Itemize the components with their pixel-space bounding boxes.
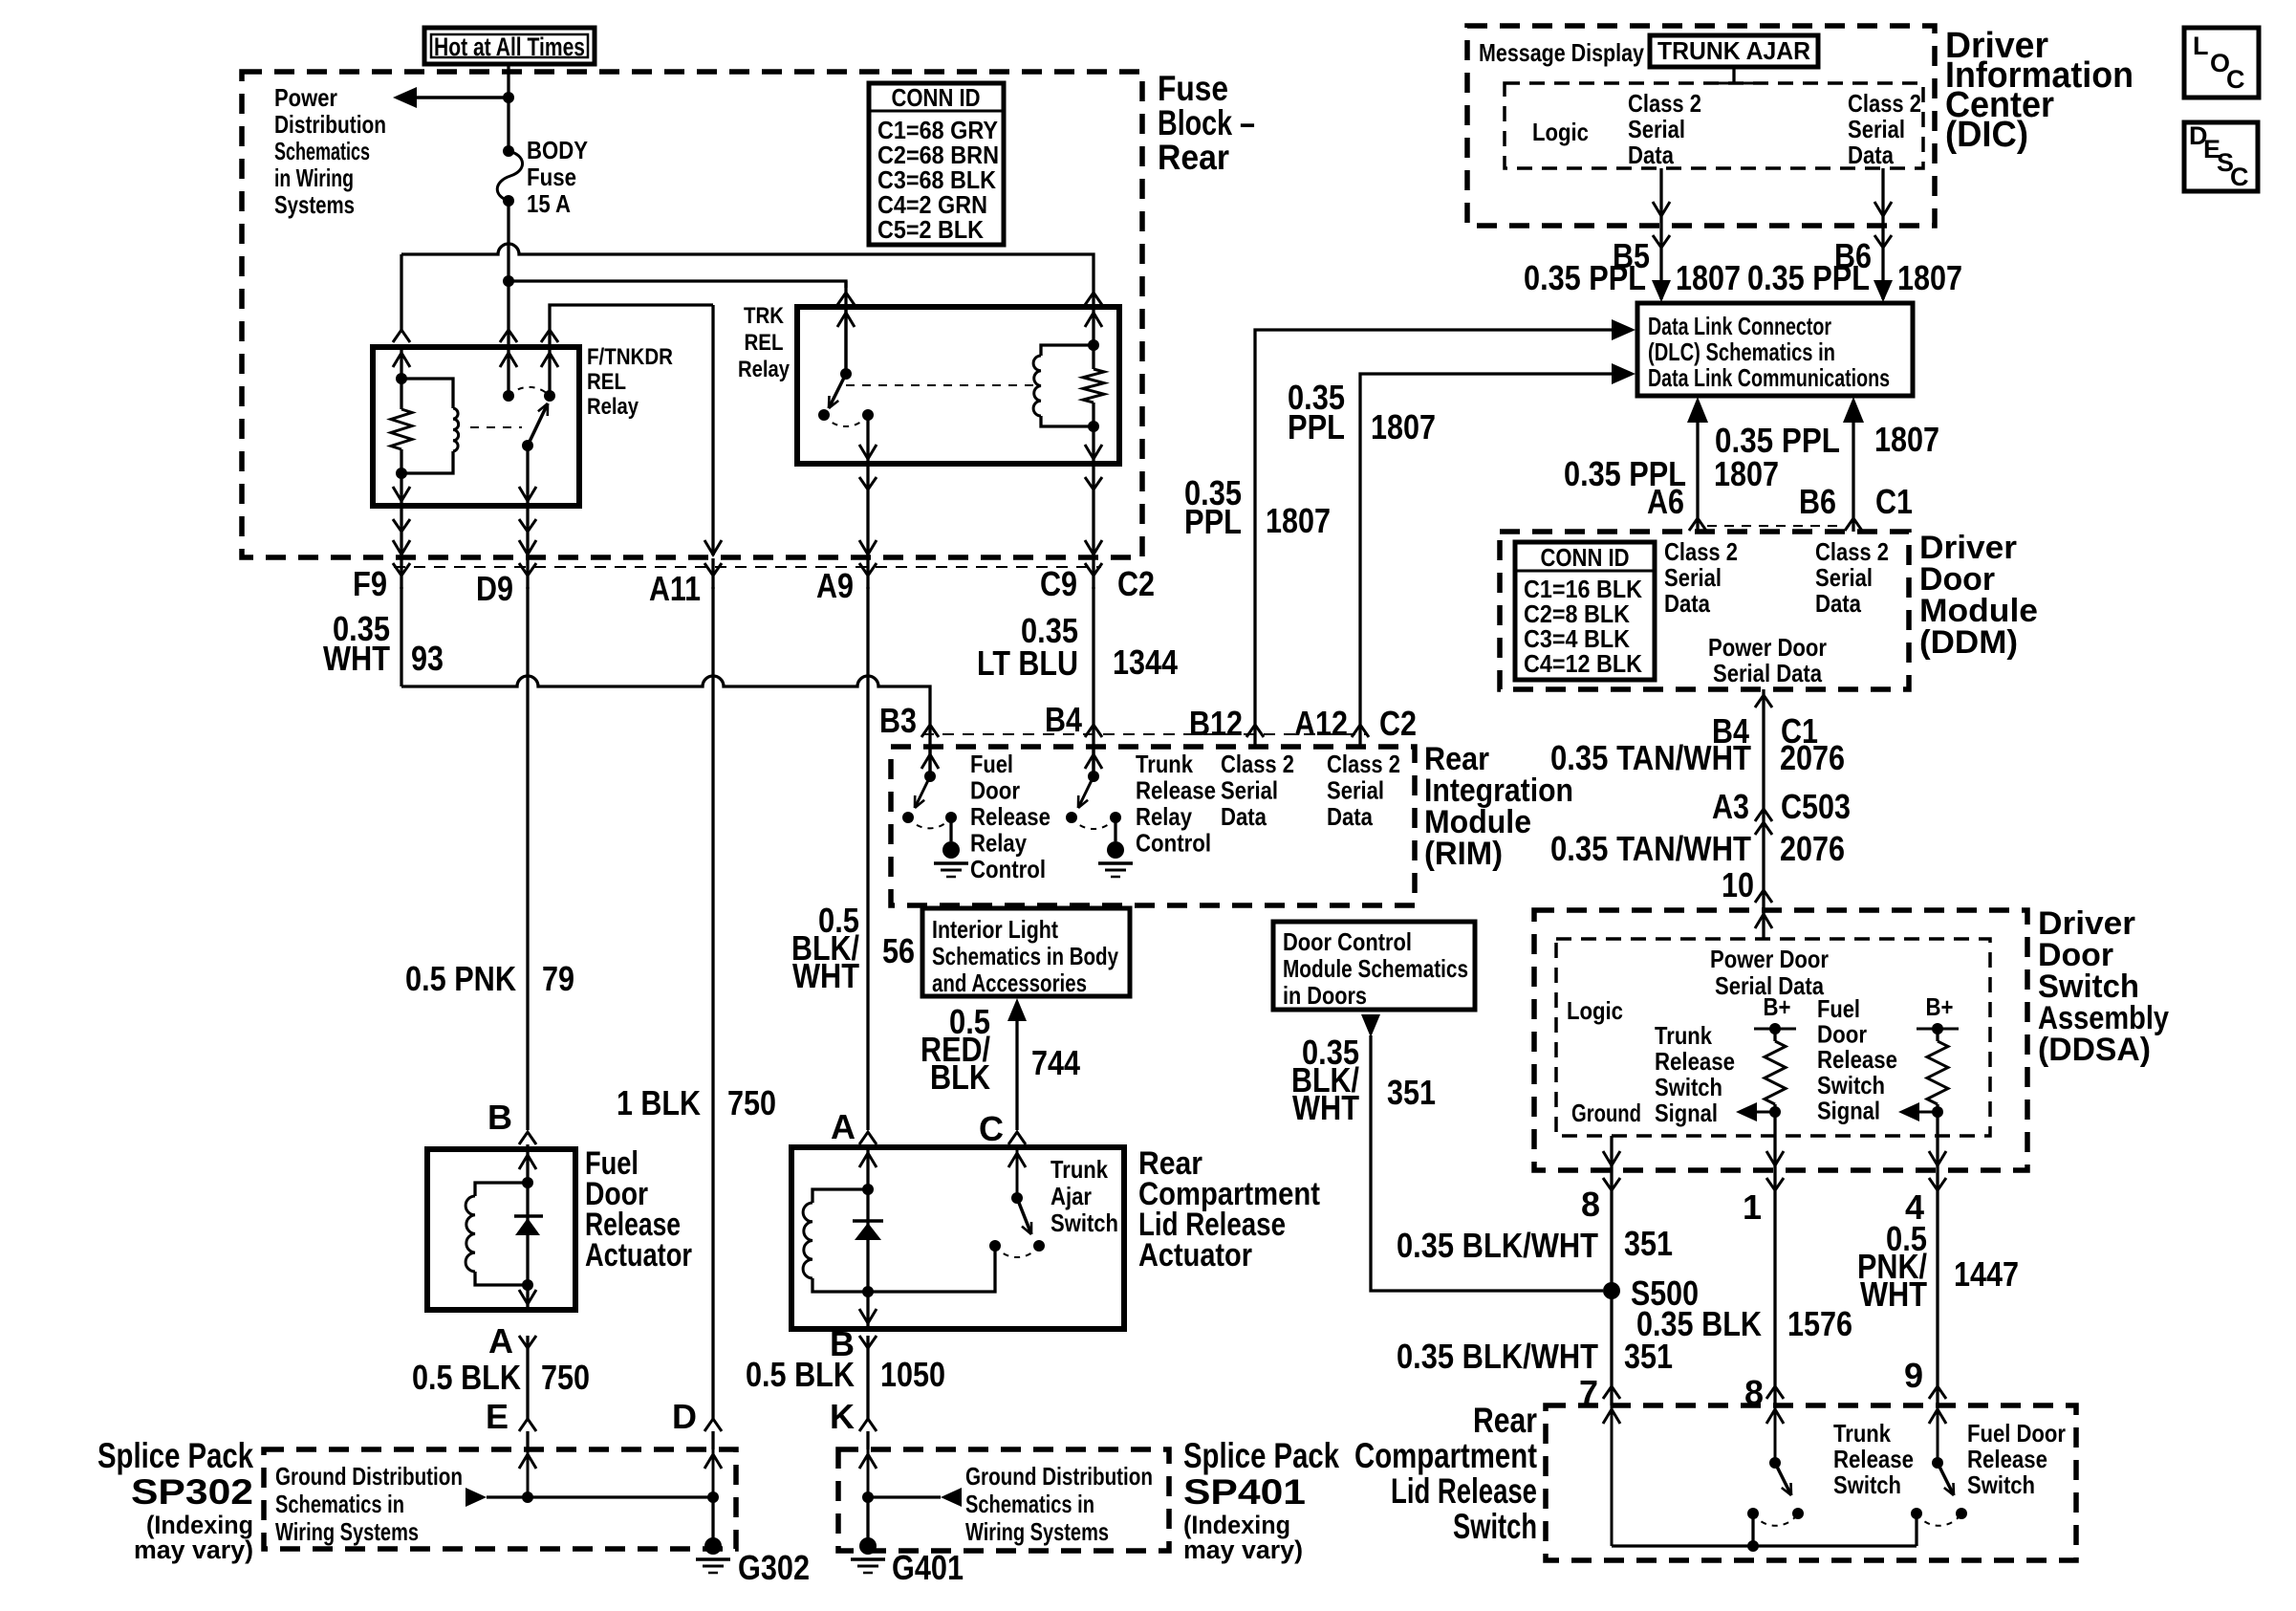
rear integration module dashed box (891, 747, 1415, 905)
wire A11 circuit 750 down to splice pack (711, 587, 714, 1421)
wire fuel door release contact to ground bus (1915, 1513, 1917, 1546)
conn id table DDM (1515, 542, 1655, 680)
connector chevron RIM B4 (1085, 725, 1102, 737)
svg-text:C2: C2 (1117, 564, 1155, 603)
svg-text:(DIC): (DIC) (1945, 115, 2028, 155)
svg-text:1344: 1344 (1113, 642, 1178, 682)
svg-text:WHT: WHT (1860, 1274, 1927, 1314)
resistor TRK relay internal (1092, 345, 1094, 369)
conn id table fuse block (869, 83, 1004, 245)
LOC reference box (2184, 28, 2259, 98)
connector chevron below TRK relay switch out (866, 464, 869, 555)
svg-text:Trunk: Trunk (1833, 1419, 1891, 1448)
inductor trunk actuator solenoid (812, 1189, 868, 1203)
trunk actuator solenoid feed (866, 1147, 869, 1189)
node RIM fuel door contact a (902, 812, 914, 823)
svg-text:G401: G401 (892, 1548, 964, 1587)
svg-text:Switch: Switch (1833, 1470, 1901, 1499)
svg-text:Class 2: Class 2 (1815, 537, 1889, 566)
wire DIC B5 down to DLC (1659, 168, 1662, 299)
connector chevron below relay D9 out (526, 506, 529, 555)
svg-text:Data: Data (1221, 802, 1267, 831)
node RIM fuel door contact b (945, 812, 957, 823)
svg-text:Fuel: Fuel (1817, 994, 1860, 1023)
svg-text:CONN ID: CONN ID (892, 83, 981, 112)
svg-text:0.35 BLK/WHT: 0.35 BLK/WHT (1397, 1337, 1598, 1376)
svg-text:Release: Release (970, 802, 1051, 831)
svg-text:Signal: Signal (1817, 1096, 1880, 1124)
node power distribution junction (503, 92, 514, 103)
svg-text:B3: B3 (879, 701, 917, 740)
wire bus A left drop to F9 relay pin (400, 254, 402, 331)
svg-text:Actuator: Actuator (1138, 1237, 1252, 1274)
svg-text:WHT: WHT (323, 639, 390, 678)
svg-text:15 A: 15 A (527, 189, 571, 218)
svg-text:Relay: Relay (587, 394, 639, 420)
svg-text:744: 744 (1031, 1043, 1080, 1082)
driver door switch assembly dashed box (1534, 910, 2027, 1170)
node trunk release contact a (1747, 1508, 1759, 1519)
svg-text:Switch: Switch (1817, 1071, 1885, 1099)
svg-text:9: 9 (1904, 1356, 1923, 1395)
svg-text:Wiring Systems: Wiring Systems (275, 1517, 419, 1546)
svg-text:Lid Release: Lid Release (1391, 1471, 1537, 1511)
wire SP401 to ground G401 (866, 1497, 869, 1541)
connector chevron trunk actuator A (859, 1132, 877, 1144)
wire fuse output down to distribution point (507, 201, 509, 281)
message display TRUNK AJAR box (1650, 35, 1818, 67)
svg-text:Data Link Communications: Data Link Communications (1648, 363, 1890, 392)
wire trunk ajar contact to solenoid return (868, 1246, 995, 1292)
fuel door release actuator box (427, 1149, 575, 1310)
wire serial data into DDSA (1762, 910, 1765, 939)
svg-text:1807: 1807 (1897, 258, 1962, 297)
connector chevron trunk ajar C (1008, 1132, 1026, 1144)
relay TRK REL box (797, 307, 1119, 464)
svg-text:Rear: Rear (1158, 138, 1229, 177)
svg-text:C: C (2230, 163, 2249, 191)
svg-text:TRUNK AJAR: TRUNK AJAR (1657, 36, 1810, 65)
hot at all times feed box (424, 28, 595, 64)
fuel door release switch pull-up feed bar (1917, 1028, 1959, 1031)
svg-text:Trunk: Trunk (1655, 1021, 1712, 1050)
wire DDM B6 C1 up to DLC (1852, 419, 1854, 532)
svg-text:Schematics: Schematics (274, 137, 370, 165)
wire A12 C2 class2 serial data to DLC (1360, 374, 1613, 747)
ground internal RIM fuel door driver (949, 817, 952, 841)
svg-text:C1: C1 (1875, 482, 1913, 521)
relay switch arm (528, 403, 548, 446)
svg-text:Serial: Serial (1221, 776, 1278, 805)
svg-text:WHT: WHT (792, 956, 859, 995)
svg-text:Class 2: Class 2 (1221, 750, 1294, 778)
RIM fuel door release relay control driver (928, 747, 932, 776)
rear compartment lid release switch dashed box (1546, 1405, 2076, 1560)
trunk release switch arm (1775, 1463, 1791, 1495)
wire relay switched output down (526, 446, 529, 506)
connector chevron RIM B12 (1246, 725, 1264, 737)
svg-text:C503: C503 (1781, 787, 1851, 826)
TRK relay switch arm (829, 374, 846, 408)
node trunk ajar contact b (1033, 1240, 1045, 1252)
connector chevron below relay F9 out (400, 506, 402, 555)
svg-text:Ground Distribution: Ground Distribution (965, 1462, 1153, 1491)
wire fuel door release switch signal down (1936, 1112, 1939, 1170)
svg-text:Power Door: Power Door (1708, 633, 1827, 662)
RIM fuel door driver switch arm (915, 776, 930, 808)
node TRK switch contact left (818, 409, 830, 421)
svg-text:Ground Distribution: Ground Distribution (275, 1462, 463, 1491)
svg-text:Data Link Connector: Data Link Connector (1648, 312, 1831, 340)
svg-text:1447: 1447 (1954, 1254, 2019, 1294)
DDSA ground pin drop (1610, 1136, 1613, 1170)
trunk release switch pull-up feed bar (1754, 1028, 1796, 1031)
svg-text:351: 351 (1624, 1224, 1673, 1263)
wire circuit 744 trunk ajar to interior light (1015, 1019, 1018, 1130)
connector chevron below TRK coil out (1092, 464, 1094, 555)
wire DDM A6 up to DLC (1696, 419, 1699, 532)
wire TRK switched output down (866, 415, 869, 464)
trunk release switch pin 8 entry (1774, 1405, 1777, 1463)
svg-text:351: 351 (1624, 1337, 1673, 1376)
wire A11 drop to fuse block bus (711, 305, 714, 555)
wire circuit 1050 trunk actuator to G401 (866, 1348, 869, 1419)
svg-text:Release: Release (1655, 1047, 1735, 1076)
switch box ground bus (1612, 1544, 1917, 1547)
svg-text:1050: 1050 (880, 1355, 945, 1394)
svg-text:Release: Release (1967, 1445, 2047, 1473)
svg-text:8: 8 (1581, 1185, 1600, 1224)
fuel door release switch pin 9 entry (1937, 1405, 1939, 1463)
svg-text:0.35 TAN/WHT: 0.35 TAN/WHT (1550, 829, 1751, 868)
node trunk release switch pivot (1769, 1457, 1781, 1469)
svg-text:Control: Control (1136, 829, 1211, 858)
node splice S500 (1603, 1282, 1620, 1299)
wire relay coil out to box bottom (400, 473, 402, 506)
resistor relay F/TNKDR internal (400, 379, 402, 409)
svg-text:1807: 1807 (1371, 407, 1436, 446)
node fuel solenoid top (522, 1177, 533, 1188)
connector chevron trunk actuator B (859, 1336, 877, 1348)
svg-text:0.5 BLK: 0.5 BLK (746, 1355, 855, 1394)
svg-text:K: K (830, 1397, 855, 1436)
svg-text:and Accessories: and Accessories (932, 969, 1087, 997)
node relay coil bottom (396, 468, 407, 479)
relay NC pin to A11 riser (548, 347, 551, 396)
connector chevron TRK switch pin (844, 281, 847, 307)
SP302 internal bus with continuation arrow (466, 1488, 487, 1507)
wire circuit 351 from door control to S500 (1361, 1014, 1380, 1037)
svg-text:C: C (2226, 65, 2245, 94)
svg-text:A9: A9 (816, 566, 854, 605)
svg-text:10: 10 (1722, 865, 1754, 904)
svg-text:Relay: Relay (738, 357, 791, 382)
svg-text:in Wiring: in Wiring (274, 163, 354, 192)
svg-text:B: B (487, 1098, 512, 1137)
DDSA inner logic dashed box (1556, 939, 1990, 1136)
svg-text:Wiring Systems: Wiring Systems (965, 1517, 1109, 1546)
node TRK coil bottom (1088, 421, 1099, 432)
svg-text:D: D (672, 1397, 697, 1436)
node SP302 D junction (707, 1491, 719, 1503)
svg-text:Message Display: Message Display (1479, 38, 1644, 67)
wire B12 class2 serial data to DLC (1255, 330, 1613, 747)
node RIM trunk contact b (1110, 812, 1121, 823)
connector chevron pin 10 (1755, 890, 1772, 903)
svg-text:1807: 1807 (1676, 258, 1741, 297)
fuse block connector dashed line (394, 566, 1101, 568)
wire trunk solenoid return to pin B (866, 1292, 869, 1329)
node trunk ajar pivot (1011, 1192, 1023, 1204)
svg-text:A: A (831, 1107, 856, 1146)
svg-text:Class 2: Class 2 (1848, 89, 1921, 118)
svg-text:93: 93 (411, 639, 444, 678)
node fuel solenoid bottom (522, 1279, 533, 1291)
svg-text:Ground: Ground (1571, 1099, 1641, 1127)
svg-text:BODY: BODY (527, 136, 588, 164)
node TRK switch common (840, 368, 852, 380)
trunk ajar switch arc (995, 1246, 1039, 1257)
svg-text:C2: C2 (1379, 704, 1417, 743)
svg-text:PPL: PPL (1184, 502, 1242, 541)
RIM trunk driver switch arm (1078, 776, 1094, 808)
svg-text:Door Control: Door Control (1283, 927, 1412, 956)
svg-text:Relay: Relay (970, 829, 1027, 858)
relay switch common pin from fuse (507, 347, 509, 396)
node switch ground junction (1747, 1540, 1759, 1552)
connector chevrons at fuse block outputs (400, 558, 402, 589)
wire SP302 to ground G302 (711, 1497, 714, 1541)
svg-text:L: L (2193, 32, 2209, 60)
wire fuel solenoid return to pin A (526, 1285, 529, 1310)
wire trunk release contact to ground bus (1751, 1513, 1754, 1546)
svg-text:0.35 PPL: 0.35 PPL (1747, 258, 1870, 297)
SP302 pin E entry (527, 1449, 530, 1497)
svg-text:Release: Release (1817, 1045, 1897, 1074)
svg-text:Serial: Serial (1815, 563, 1873, 592)
svg-text:750: 750 (727, 1083, 776, 1122)
svg-text:Compartment: Compartment (1354, 1436, 1537, 1475)
RIM trunk switch arc (1072, 817, 1116, 829)
trunk release signal arrow to logic (1751, 1111, 1775, 1114)
svg-text:B6: B6 (1799, 482, 1836, 521)
connector C503 double chevron (1755, 809, 1772, 821)
wire circuit 1576 pin1 to switch (1773, 1193, 1776, 1405)
TRK switch travel dashed arc (824, 415, 868, 426)
svg-text:Serial: Serial (1628, 115, 1685, 143)
fuel door release switch arm (1938, 1463, 1954, 1495)
svg-text:C4=12 BLK: C4=12 BLK (1524, 649, 1642, 678)
svg-text:1576: 1576 (1787, 1304, 1852, 1343)
svg-text:Actuator: Actuator (585, 1237, 692, 1274)
svg-text:B+: B+ (1764, 992, 1791, 1021)
svg-text:Class 2: Class 2 (1327, 750, 1400, 778)
wire message display to logic tick (1732, 67, 1735, 83)
svg-text:Signal: Signal (1655, 1099, 1718, 1127)
svg-text:Door: Door (970, 776, 1020, 805)
svg-text:Interior Light: Interior Light (932, 915, 1058, 944)
svg-text:REL: REL (745, 330, 784, 356)
DIC logic inner dashed box (1505, 83, 1923, 168)
wire circuit 1447 pin4 to switch (1936, 1193, 1939, 1405)
svg-text:79: 79 (542, 959, 574, 998)
relay actuation dashed link (470, 426, 522, 428)
svg-text:2076: 2076 (1780, 829, 1845, 868)
svg-text:F/TNKDR: F/TNKDR (587, 344, 673, 370)
node trunk solenoid top (862, 1184, 874, 1195)
DESC reference box (2184, 122, 2258, 191)
connector chevrons rear lid release switch (1603, 1386, 1620, 1399)
svg-text:SP401: SP401 (1183, 1472, 1306, 1512)
svg-text:Hot at All Times: Hot at All Times (434, 33, 585, 61)
node relay switch pivot (522, 440, 533, 451)
svg-text:REL: REL (587, 369, 626, 395)
connector chevron fuel actuator A (519, 1336, 536, 1348)
svg-text:Class 2: Class 2 (1628, 89, 1701, 118)
svg-text:Switch: Switch (1967, 1470, 2035, 1499)
relay coil pin F9 entry arrow (400, 347, 402, 379)
wire from junction to fuse (507, 98, 509, 151)
node fuse to trunk relay junction (503, 275, 514, 287)
svg-text:Data: Data (1327, 802, 1373, 831)
node TRK coil top (1088, 339, 1099, 351)
svg-text:Serial: Serial (1327, 776, 1384, 805)
svg-text:Control: Control (970, 855, 1046, 883)
node relay coil top (396, 373, 407, 384)
connector chevron fuel actuator B (519, 1132, 536, 1144)
svg-text:Data: Data (1815, 589, 1861, 618)
connector chevron D (704, 1419, 722, 1431)
svg-text:BLK: BLK (930, 1057, 990, 1097)
wire D9 circuit 79 down to fuel door actuator (526, 587, 529, 1130)
svg-text:0.5 PNK: 0.5 PNK (405, 959, 516, 998)
svg-text:CONN ID: CONN ID (1541, 543, 1630, 572)
node trunk release contact b (1792, 1508, 1804, 1519)
RIM fuel door switch arc (908, 817, 951, 828)
SP401 internal bus with continuation arrow (868, 1495, 941, 1498)
svg-text:Ajar: Ajar (1051, 1182, 1092, 1210)
svg-text:Logic: Logic (1532, 118, 1589, 146)
svg-text:1807: 1807 (1874, 420, 1939, 459)
svg-text:Switch: Switch (1453, 1507, 1537, 1546)
svg-text:Fuse: Fuse (1158, 69, 1228, 108)
node fuel door release contact b (1956, 1508, 1967, 1519)
connector chevron B6 C1 (1845, 518, 1862, 531)
wire circuit 351 pin8 to S500 (1610, 1193, 1613, 1405)
data link connector DLC box (1637, 303, 1913, 396)
svg-text:750: 750 (541, 1358, 590, 1397)
connector chevron E (519, 1419, 536, 1431)
wire circuit 750 fuel actuator to splice (526, 1348, 529, 1419)
svg-text:C9: C9 (1040, 564, 1077, 603)
ground G302 (704, 1537, 722, 1555)
svg-text:Power: Power (274, 83, 337, 112)
diode fuel actuator suppression (526, 1183, 529, 1285)
fuse block bottom connector row: arrows (393, 540, 410, 555)
svg-text:in Doors: in Doors (1283, 981, 1367, 1010)
node fuel door release contact a (1911, 1508, 1922, 1519)
svg-text:A12: A12 (1294, 704, 1348, 743)
svg-text:Schematics in: Schematics in (965, 1490, 1094, 1518)
svg-text:Power Door: Power Door (1710, 945, 1829, 973)
wire hot feed down from Hot at All Times (507, 64, 509, 98)
relay switch travel dashed arc (509, 387, 550, 396)
fuel actuator solenoid feed (526, 1149, 529, 1183)
svg-text:(DDSA): (DDSA) (2038, 1032, 2151, 1068)
rear compartment lid release actuator box (791, 1147, 1124, 1329)
wire F9 circuit 93 down to elbow (400, 587, 402, 686)
svg-text:may vary): may vary) (1183, 1535, 1303, 1564)
relay switch fixed contact (544, 390, 555, 402)
svg-text:Splice Pack: Splice Pack (1183, 1436, 1339, 1475)
svg-text:Trunk: Trunk (1136, 750, 1193, 778)
svg-text:Fuse: Fuse (527, 163, 576, 191)
node RIM trunk contact a (1066, 812, 1077, 823)
svg-text:D9: D9 (476, 569, 513, 608)
svg-text:TRK: TRK (744, 303, 785, 329)
wire A9 circuit 56 down to trunk actuator (866, 587, 869, 1130)
svg-text:2076: 2076 (1780, 738, 1845, 777)
svg-text:Data: Data (1664, 589, 1710, 618)
svg-text:Schematics in: Schematics in (275, 1490, 404, 1518)
svg-text:Relay: Relay (1136, 802, 1192, 831)
ground G401 (859, 1537, 877, 1555)
trunk ajar switch arm (1017, 1198, 1031, 1234)
node trunk ajar contact a (989, 1240, 1001, 1252)
splice pack SP302 dashed box (264, 1449, 736, 1549)
svg-text:Serial: Serial (1848, 115, 1905, 143)
svg-text:C5=2 BLK: C5=2 BLK (877, 215, 984, 244)
RIM trunk release relay control driver (1092, 747, 1095, 776)
connector chevron DDM B4 (1755, 695, 1772, 708)
svg-text:Trunk: Trunk (1051, 1155, 1108, 1184)
switch box pin 7 entry (1611, 1405, 1614, 1546)
wire DDM B4 power door serial data down (1762, 689, 1765, 910)
trunk release switch arc (1753, 1513, 1798, 1526)
resistor trunk release switch pull-up (1773, 1029, 1776, 1041)
svg-text:Schematics in Body: Schematics in Body (932, 942, 1118, 970)
node SP401 K junction (862, 1491, 874, 1503)
wire bus B fuse junction to TRK relay switch pin (509, 281, 846, 288)
svg-text:(DDM): (DDM) (1919, 624, 2018, 661)
node SP302 E junction (522, 1491, 533, 1503)
TRK relay switch common pin (844, 307, 848, 374)
svg-text:A3: A3 (1712, 787, 1749, 826)
SP401 pin K entry (867, 1449, 870, 1497)
inductor TRK relay coil (1041, 345, 1094, 356)
node fuel door release signal (1932, 1106, 1943, 1118)
inductor fuel actuator solenoid (475, 1183, 528, 1196)
svg-text:A11: A11 (649, 569, 701, 608)
wire DIC B6 down to DLC (1881, 168, 1884, 299)
inductor relay F/TNKDR coil (401, 379, 453, 408)
diode trunk actuator suppression (866, 1189, 869, 1292)
svg-text:Block –: Block – (1158, 103, 1255, 142)
svg-text:Systems: Systems (274, 190, 355, 219)
SP302 pin D entry (712, 1449, 715, 1497)
svg-text:Release: Release (1136, 776, 1216, 805)
svg-text:1 BLK: 1 BLK (617, 1083, 701, 1122)
svg-text:B+: B+ (1926, 992, 1954, 1021)
svg-text:Fuel Door: Fuel Door (1967, 1419, 2066, 1448)
svg-text:Data: Data (1628, 141, 1674, 169)
svg-text:F9: F9 (353, 564, 387, 603)
splice pack SP401 dashed box (838, 1449, 1169, 1551)
svg-text:Switch: Switch (1655, 1073, 1722, 1101)
svg-text:Logic: Logic (1567, 996, 1623, 1025)
svg-text:Fuel: Fuel (970, 750, 1013, 778)
svg-text:SP302: SP302 (131, 1472, 253, 1512)
